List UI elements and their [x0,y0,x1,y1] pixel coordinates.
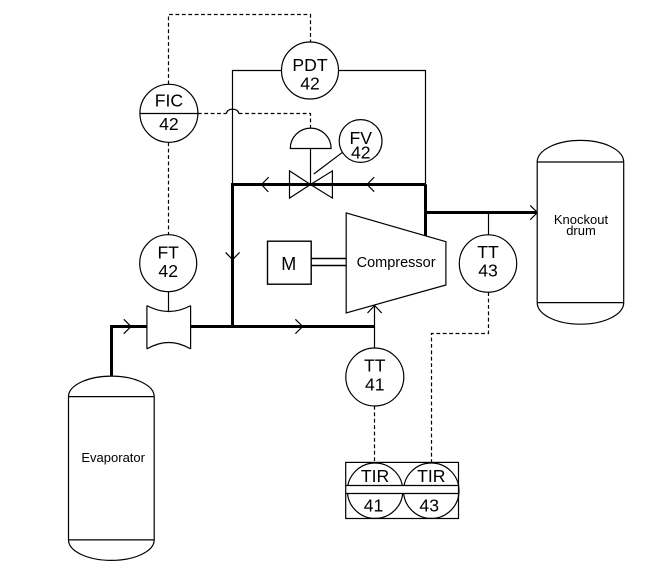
wire: suction tap to TT41 with up arrow into compressor [368,306,382,349]
svg-text:42: 42 [159,114,179,134]
flow arrow right at drum inlet [530,205,537,219]
process recycle line [233,183,426,186]
svg-text:FT: FT [157,243,179,263]
evaporator vessel [69,376,155,560]
process suction line from evaporator to venturi [112,327,148,379]
knockout drum vessel [537,140,624,324]
flow arrow left on recycle (right of valve) [367,177,374,192]
svg-text:42: 42 [158,261,178,281]
svg-text:TIR: TIR [417,466,445,486]
wire: dashed signal FIC to valve FV (with hop over line) [198,109,311,128]
flow arrow down on left downcomer [226,252,240,259]
wire: discharge tap to TT43 [488,213,490,235]
wire: PDT right tap to discharge riser [339,71,426,185]
instrument FT 42 [140,235,197,292]
svg-text:drum: drum [566,223,596,238]
wire: dashed signal TT43 to TIR [432,292,489,462]
instrument FIC 42 [140,84,198,142]
process discharge riser from compressor [424,184,427,236]
instrument PDT 42 [282,42,339,99]
svg-text:M: M [281,254,296,274]
venturi flow element [147,306,191,349]
wire: PDT left tap to recycle line [233,71,282,185]
svg-text:41: 41 [365,375,385,395]
control valve body [290,171,333,198]
wire: dashed signal TT41 to TIR [374,406,376,462]
svg-text:PDT: PDT [292,55,327,75]
svg-text:TT: TT [364,356,386,376]
flow arrow left on recycle (near valve) [262,177,269,192]
instrument TT 43 [459,235,516,292]
svg-text:FIC: FIC [155,91,184,111]
compressor [346,213,446,313]
valve actuator dome [290,128,331,184]
svg-text:43: 43 [419,496,439,516]
svg-text:43: 43 [478,261,498,281]
instrument TT 41 [346,348,404,406]
wire: FT tap to venturi [168,292,170,312]
wire: dashed signal FIC to PDT (top) [169,15,311,85]
shared display TIR 41 / TIR 43 [346,462,459,518]
svg-text:Evaporator: Evaporator [81,450,145,465]
motor M [268,241,312,284]
process left downcomer [231,183,234,327]
process suction line from venturi to compressor [191,325,375,328]
instrument FV 42 with leader line [314,120,382,174]
flow arrow right on suction (left) [124,319,131,333]
svg-text:Compressor: Compressor [357,255,436,271]
svg-text:42: 42 [351,143,371,163]
svg-text:42: 42 [300,73,320,93]
flow arrow right on suction (right) [295,319,302,333]
svg-text:41: 41 [364,496,384,516]
svg-text:TT: TT [477,242,499,262]
wire: dashed signal FIC to FT [168,142,170,235]
motor shaft coupling [311,259,346,266]
svg-text:TIR: TIR [361,466,389,486]
process discharge line to knockout drum [426,211,538,214]
